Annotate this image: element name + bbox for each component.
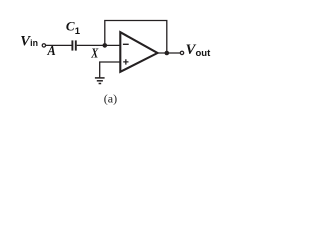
wire op-amp output to Vout terminal [157, 52, 180, 54]
svg-text:A: A [47, 44, 56, 59]
wire feedback loop X to output [105, 21, 167, 53]
svg-text:(a): (a) [104, 91, 117, 105]
op-amp U1 [120, 32, 157, 72]
wire ground to non-inverting input [100, 62, 120, 78]
svg-text:X: X [90, 47, 98, 62]
op-amp plus sign [123, 59, 128, 64]
wire C1 to op-amp inverting input [77, 44, 120, 46]
wire Vin terminal to C1 [46, 44, 72, 46]
output junction dot [165, 51, 170, 56]
op-amp minus sign [123, 43, 129, 45]
input terminal circle [42, 44, 45, 47]
ground [95, 78, 105, 84]
capacitor C1 [72, 40, 75, 50]
output terminal circle [180, 51, 183, 54]
node X junction dot [103, 43, 108, 48]
